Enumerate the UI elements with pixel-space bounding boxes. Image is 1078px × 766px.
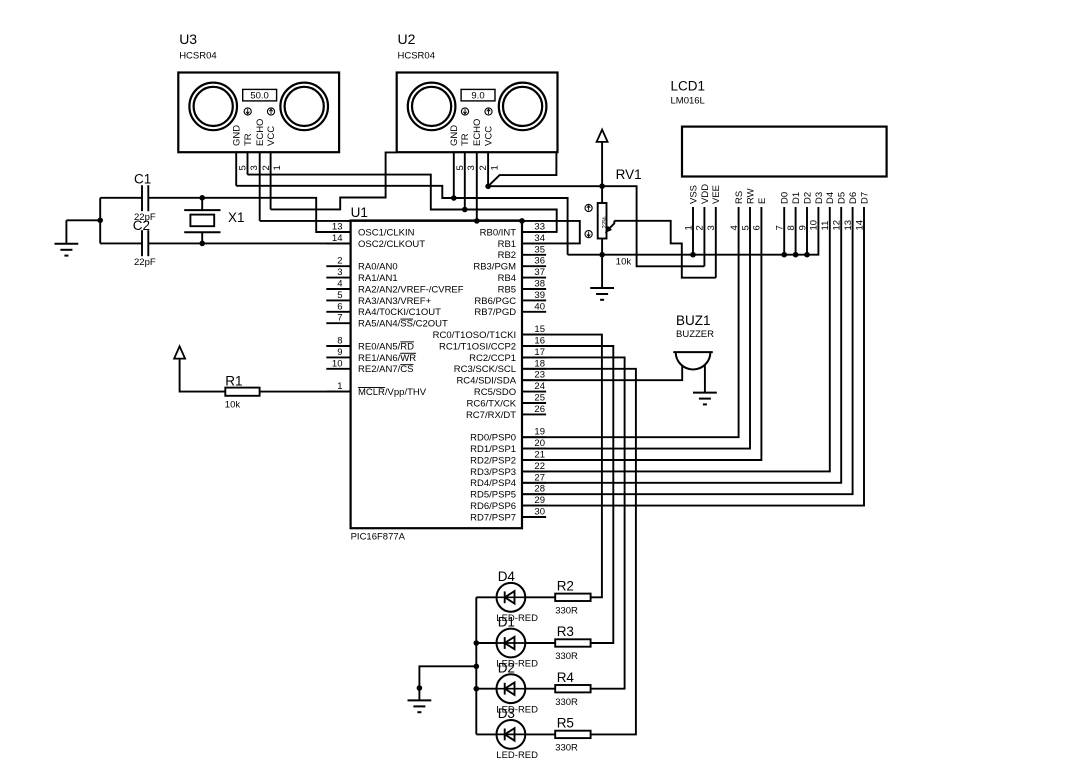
svg-text:5: 5 xyxy=(337,290,342,301)
svg-text:R5: R5 xyxy=(557,716,574,731)
wire buzzer to ground xyxy=(704,365,706,393)
U1 pin 20 stub xyxy=(522,448,546,450)
svg-text:16: 16 xyxy=(534,336,545,347)
op-amp U1 body xyxy=(351,221,522,529)
svg-text:1: 1 xyxy=(490,165,501,170)
svg-text:3: 3 xyxy=(249,165,260,170)
svg-text:6: 6 xyxy=(337,301,342,312)
svg-text:330R: 330R xyxy=(555,697,578,708)
resistor R3 xyxy=(555,639,590,646)
svg-text:RC2/CCP1: RC2/CCP1 xyxy=(469,353,516,364)
U1 pin 3 stub xyxy=(326,277,350,279)
junction cap bus xyxy=(97,218,103,224)
sensor U2 body xyxy=(397,73,558,153)
svg-text:2: 2 xyxy=(337,256,342,267)
capacitor C1 xyxy=(141,185,143,211)
wire LCD VDD xyxy=(703,207,705,266)
wire diode D4 to bus xyxy=(476,596,496,598)
svg-text:D5: D5 xyxy=(837,192,848,204)
svg-text:3: 3 xyxy=(466,165,477,170)
wire LED cathode bus xyxy=(475,597,477,734)
U1 pin 5 stub xyxy=(326,299,350,301)
U1 pin 40 stub xyxy=(522,311,546,313)
svg-text:24: 24 xyxy=(534,381,545,392)
U1 pin 30 stub xyxy=(522,516,546,518)
junction bus D2 xyxy=(474,686,480,692)
U1 pin 18 stub xyxy=(522,368,546,370)
junction bus D0 xyxy=(781,252,787,258)
svg-text:HCSR04: HCSR04 xyxy=(398,51,436,62)
svg-text:21: 21 xyxy=(534,450,545,461)
U1 pin 23 stub xyxy=(522,379,546,381)
wire RC0 to R2 xyxy=(522,335,602,598)
U1 pin 1 stub xyxy=(326,391,350,393)
svg-text:10k: 10k xyxy=(616,257,632,268)
svg-text:4: 4 xyxy=(337,279,342,290)
svg-text:22%: 22% xyxy=(602,216,608,229)
U1 pin 9 stub xyxy=(326,356,350,358)
wire +5V to U2.VCC xyxy=(488,185,602,187)
svg-text:VEE: VEE xyxy=(711,185,722,204)
RV1 up arrow xyxy=(585,204,592,211)
wire ECHO net (U3.ECHO - U2.ECHO - RB1) xyxy=(260,221,580,244)
junction RV1 bottom xyxy=(599,252,605,258)
svg-text:7: 7 xyxy=(337,313,342,324)
U1 pin 25 stub xyxy=(522,402,546,404)
svg-text:13: 13 xyxy=(332,222,343,233)
wire R3 to diode D1 xyxy=(525,642,555,644)
svg-text:35: 35 xyxy=(534,244,545,255)
sensor U3 rx arrow xyxy=(267,108,274,115)
wire diode D3 to bus xyxy=(476,733,496,735)
wire bus to ground xyxy=(66,219,100,221)
svg-text:VCC: VCC xyxy=(484,126,495,146)
wire RV1 bottom stem xyxy=(601,239,603,255)
svg-text:50.0: 50.0 xyxy=(250,91,269,102)
U1 pin 10 stub xyxy=(326,368,350,370)
svg-text:RB4: RB4 xyxy=(498,273,516,284)
wire diode D2 to bus xyxy=(476,688,496,690)
diode D1 xyxy=(497,629,526,658)
svg-text:RC6/TX/CK: RC6/TX/CK xyxy=(466,398,516,409)
svg-text:RC4/SDI/SDA: RC4/SDI/SDA xyxy=(456,376,516,387)
resistor R5 xyxy=(555,731,590,738)
svg-text:D2: D2 xyxy=(802,192,813,204)
junction +5V at RV1 top xyxy=(599,183,605,189)
ground (RV1) xyxy=(590,287,614,289)
svg-text:OSC1/CLKIN: OSC1/CLKIN xyxy=(358,227,415,238)
wire C1 to OSC1 xyxy=(148,198,350,232)
svg-text:ECHO: ECHO xyxy=(255,119,266,146)
wire +5V stem xyxy=(601,142,603,186)
svg-text:C2: C2 xyxy=(133,218,150,233)
svg-text:RC3/SCK/SCL: RC3/SCK/SCL xyxy=(454,364,516,375)
svg-text:U3: U3 xyxy=(179,31,197,47)
power arrow (R1) xyxy=(174,346,185,358)
wire U3 pin TR xyxy=(247,152,249,174)
wire ground bus (VSS D0-D3) xyxy=(568,207,819,255)
wire TRIG net (U3.TR - U2.TR - RB0/INT) xyxy=(248,175,557,232)
svg-text:TR: TR xyxy=(243,133,254,146)
sensor U3 left transducer xyxy=(189,83,237,131)
svg-text:33: 33 xyxy=(534,222,545,233)
svg-text:37: 37 xyxy=(534,267,545,278)
wire U3 pin GND xyxy=(235,152,237,186)
wire U3.VCC to U2 supply xyxy=(271,152,397,209)
svg-text:25: 25 xyxy=(534,393,545,404)
svg-text:10k: 10k xyxy=(225,400,241,411)
wire LCD VSS to ground bus xyxy=(692,207,694,255)
svg-text:C1: C1 xyxy=(134,172,151,187)
U1 pin 15 stub xyxy=(522,334,546,336)
U1 pin 33 stub xyxy=(522,231,546,233)
svg-text:D3: D3 xyxy=(498,706,515,721)
svg-text:39: 39 xyxy=(534,290,545,301)
U1 pin 4 stub xyxy=(326,288,350,290)
junction bus ground tap xyxy=(474,664,480,670)
svg-text:RB0/INT: RB0/INT xyxy=(480,227,517,238)
svg-text:RD6/PSP6: RD6/PSP6 xyxy=(470,501,516,512)
potentiometer RV1 body xyxy=(598,203,607,239)
svg-text:10: 10 xyxy=(809,220,820,231)
svg-text:VDD: VDD xyxy=(700,184,711,204)
diode D3 xyxy=(497,720,526,749)
svg-text:RD4/PSP4: RD4/PSP4 xyxy=(470,478,516,489)
U1 pin 37 stub xyxy=(522,277,546,279)
junction TRIG at U2.TR xyxy=(462,207,468,213)
svg-text:28: 28 xyxy=(534,484,545,495)
wire U2.VCC branch to box xyxy=(488,152,556,186)
svg-text:RB1: RB1 xyxy=(498,239,516,250)
svg-text:D3: D3 xyxy=(814,192,825,204)
svg-text:RV1: RV1 xyxy=(616,167,642,182)
svg-text:RB7/PGD: RB7/PGD xyxy=(474,307,516,318)
sensor U2 rx arrow xyxy=(485,108,492,115)
svg-text:RD5/PSP5: RD5/PSP5 xyxy=(470,490,516,501)
U1 pin 27 stub xyxy=(522,482,546,484)
U1 pin 38 stub xyxy=(522,288,546,290)
svg-text:RE0/AN5/RD: RE0/AN5/RD xyxy=(358,341,414,352)
svg-text:18: 18 xyxy=(534,358,545,369)
wire U3 pin VCC xyxy=(270,152,272,209)
svg-text:RE1/AN6/WR: RE1/AN6/WR xyxy=(358,353,416,364)
svg-text:GND: GND xyxy=(449,125,460,146)
U1 pin 8 stub xyxy=(326,345,350,347)
wire power to R1 xyxy=(180,359,226,392)
svg-text:D2: D2 xyxy=(498,660,515,675)
svg-text:330R: 330R xyxy=(555,606,578,617)
wire LCD E to RD2 xyxy=(522,207,761,460)
wire R5 to diode D3 xyxy=(525,733,555,735)
sensor U3 value display 50.0 xyxy=(243,89,277,101)
svg-text:OSC2/CLKOUT: OSC2/CLKOUT xyxy=(358,239,425,250)
svg-text:LM016L: LM016L xyxy=(671,96,705,107)
power +5V arrow xyxy=(597,130,608,142)
junction ECHO at U1 corner xyxy=(519,218,525,224)
svg-text:RA3/AN3/VREF+: RA3/AN3/VREF+ xyxy=(358,296,432,307)
svg-text:U1: U1 xyxy=(351,205,368,220)
resistor R2 xyxy=(555,594,590,601)
svg-text:RW: RW xyxy=(745,188,756,204)
junction GND at U2.GND xyxy=(451,195,457,201)
svg-text:17: 17 xyxy=(534,347,545,358)
wire LCD RW to RD1 xyxy=(522,207,750,449)
svg-text:D1: D1 xyxy=(791,192,802,204)
wire U3 pin ECHO xyxy=(259,152,261,221)
wire RC2 to R4 xyxy=(522,357,625,688)
svg-text:D1: D1 xyxy=(498,615,515,630)
diode D2 xyxy=(497,674,526,703)
svg-text:RC7/RX/DT: RC7/RX/DT xyxy=(466,410,516,421)
U1 pin 17 stub xyxy=(522,356,546,358)
sensor U3 tx arrow xyxy=(244,108,251,115)
wire bus to LED ground xyxy=(419,666,476,700)
svg-text:14: 14 xyxy=(332,233,343,244)
svg-text:D4: D4 xyxy=(498,569,516,584)
svg-text:PIC16F877A: PIC16F877A xyxy=(351,532,406,543)
svg-text:RA5/AN4/SS/C2OUT: RA5/AN4/SS/C2OUT xyxy=(358,319,448,330)
U1 pin 28 stub xyxy=(522,493,546,495)
U1 pin 29 stub xyxy=(522,505,546,507)
svg-text:330R: 330R xyxy=(555,651,578,662)
svg-text:8: 8 xyxy=(337,336,342,347)
U1 pin 13 stub xyxy=(326,231,350,233)
ground (oscillator) xyxy=(55,243,79,245)
svg-text:23: 23 xyxy=(534,370,545,381)
ground (buzzer) xyxy=(693,392,717,394)
svg-text:RA0/AN0: RA0/AN0 xyxy=(358,262,398,273)
svg-text:BUZ1: BUZ1 xyxy=(676,313,711,328)
svg-text:1: 1 xyxy=(272,165,283,170)
wire U2 pin ECHO xyxy=(476,152,478,221)
svg-text:1: 1 xyxy=(337,381,342,392)
svg-text:RS: RS xyxy=(734,191,745,204)
resistor R1 xyxy=(225,388,259,396)
junction +5V at U2.VCC xyxy=(485,184,491,190)
junction bus D1 xyxy=(474,640,480,646)
svg-text:GND: GND xyxy=(232,125,243,146)
svg-text:RD7/PSP7: RD7/PSP7 xyxy=(470,512,516,523)
svg-text:22: 22 xyxy=(534,461,545,472)
svg-text:HCSR04: HCSR04 xyxy=(179,51,217,62)
svg-text:E: E xyxy=(757,198,768,204)
svg-text:27: 27 xyxy=(534,472,545,483)
crystal X1 xyxy=(201,198,203,210)
svg-text:VSS: VSS xyxy=(688,185,699,204)
wire cap bus xyxy=(99,198,101,244)
svg-text:RB3/PGM: RB3/PGM xyxy=(473,262,516,273)
svg-text:20: 20 xyxy=(534,438,545,449)
svg-text:RE2/AN7/CS: RE2/AN7/CS xyxy=(358,364,413,375)
U1 pin 21 stub xyxy=(522,459,546,461)
svg-text:RC5/SDO: RC5/SDO xyxy=(474,387,516,398)
svg-text:9.0: 9.0 xyxy=(471,91,484,102)
svg-text:RA2/AN2/VREF-/CVREF: RA2/AN2/VREF-/CVREF xyxy=(358,284,464,295)
U1 pin 39 stub xyxy=(522,299,546,301)
svg-text:ECHO: ECHO xyxy=(472,119,483,146)
sensor U2 tx arrow xyxy=(461,108,468,115)
wire RC1 to R3 xyxy=(522,346,613,643)
capacitor C2 xyxy=(141,230,143,256)
U1 pin 22 stub xyxy=(522,470,546,472)
wire U2 pin VCC xyxy=(487,152,489,186)
svg-text:22pF: 22pF xyxy=(134,257,156,268)
wire LCD RS to RD0 xyxy=(522,207,739,437)
wire RC3 to R5 xyxy=(522,369,636,735)
svg-text:10: 10 xyxy=(332,358,343,369)
svg-text:TR: TR xyxy=(460,133,471,146)
junction bus VSS xyxy=(690,252,696,258)
svg-text:330R: 330R xyxy=(555,743,578,754)
svg-text:26: 26 xyxy=(534,404,545,415)
U1 pin 2 stub xyxy=(326,265,350,267)
wire LCD D6 to RD5 xyxy=(522,207,853,494)
svg-text:19: 19 xyxy=(534,427,545,438)
svg-text:RD3/PSP3: RD3/PSP3 xyxy=(470,467,516,478)
U1 pin 36 stub xyxy=(522,265,546,267)
svg-text:LCD1: LCD1 xyxy=(671,79,706,94)
wire LCD VEE xyxy=(715,207,717,278)
wire RV1 to ground xyxy=(601,255,603,288)
svg-text:R2: R2 xyxy=(557,579,574,594)
wire LCD D0 to bus xyxy=(783,207,785,255)
diode D4 xyxy=(497,583,526,612)
wire LCD D4 to RD3 xyxy=(522,207,830,471)
U1 pin 26 stub xyxy=(522,413,546,415)
svg-text:VCC: VCC xyxy=(266,126,277,146)
wire RV1 wiper to LCD VEE xyxy=(614,221,716,278)
svg-text:D4: D4 xyxy=(825,192,836,204)
U1 pin 35 stub xyxy=(522,254,546,256)
svg-text:BUZZER: BUZZER xyxy=(676,329,714,340)
svg-text:RA1/AN1: RA1/AN1 xyxy=(358,273,398,284)
svg-text:38: 38 xyxy=(534,279,545,290)
junction crystal bottom xyxy=(199,241,205,247)
svg-text:40: 40 xyxy=(534,301,545,312)
wire C2 left xyxy=(100,242,142,244)
resistor R4 xyxy=(555,685,590,692)
junction crystal top xyxy=(199,195,205,201)
U1 pin 7 stub xyxy=(326,322,350,324)
wire +5V to LCD VDD xyxy=(602,186,704,266)
U1 pin 19 stub xyxy=(522,436,546,438)
sensor U2 value display 9.0 xyxy=(461,89,495,101)
sensor U2 left transducer xyxy=(408,83,456,131)
junction LED ground xyxy=(417,685,423,691)
svg-text:LED-RED: LED-RED xyxy=(496,750,538,761)
svg-text:RC0/T1OSO/T1CKI: RC0/T1OSO/T1CKI xyxy=(433,330,516,341)
svg-text:34: 34 xyxy=(534,233,545,244)
svg-text:MCLR/Vpp/THV: MCLR/Vpp/THV xyxy=(358,387,427,398)
wire R4 to diode D2 xyxy=(525,688,555,690)
svg-text:15: 15 xyxy=(534,324,545,335)
svg-text:RD0/PSP0: RD0/PSP0 xyxy=(470,433,516,444)
svg-text:30: 30 xyxy=(534,507,545,518)
svg-text:RB6/PGC: RB6/PGC xyxy=(474,296,516,307)
U1 pin 34 stub xyxy=(522,242,546,244)
junction bus D1 xyxy=(793,252,799,258)
U1 pin 14 stub xyxy=(326,242,350,244)
svg-text:D6: D6 xyxy=(848,192,859,204)
U1 pin 6 stub xyxy=(326,311,350,313)
wire C2 to OSC2 xyxy=(148,242,350,244)
wire LCD D7 to RD6 xyxy=(522,207,864,506)
svg-text:RB2: RB2 xyxy=(498,250,516,261)
junction ECHO at U2.ECHO xyxy=(474,218,480,224)
svg-text:3: 3 xyxy=(337,267,342,278)
svg-text:9: 9 xyxy=(337,347,342,358)
wire diode D1 to bus xyxy=(476,642,496,644)
svg-text:36: 36 xyxy=(534,256,545,267)
svg-text:RD1/PSP1: RD1/PSP1 xyxy=(470,444,516,455)
U1 pin 24 stub xyxy=(522,391,546,393)
U1 pin 16 stub xyxy=(522,345,546,347)
wire U2 pin GND xyxy=(453,152,455,198)
wire U2 pin TR xyxy=(464,152,466,209)
wire R1 to MCLR xyxy=(260,391,351,393)
sensor U2 right transducer xyxy=(499,83,547,131)
wire RC4 to buzzer xyxy=(522,365,682,380)
svg-text:RA4/T0CKI/C1OUT: RA4/T0CKI/C1OUT xyxy=(358,307,441,318)
svg-text:RC1/T1OSI/CCP2: RC1/T1OSI/CCP2 xyxy=(439,341,516,352)
svg-text:RB5: RB5 xyxy=(498,284,516,295)
wire C1 left xyxy=(100,197,142,199)
wire R2 to diode D4 xyxy=(525,596,555,598)
svg-text:U2: U2 xyxy=(398,31,416,47)
RV1 wiper arrow xyxy=(607,221,614,231)
svg-text:RD2/PSP2: RD2/PSP2 xyxy=(470,455,516,466)
sensor U3 body xyxy=(178,73,339,153)
wire LCD D5 to RD4 xyxy=(522,207,841,483)
svg-text:D7: D7 xyxy=(859,192,870,204)
svg-text:D0: D0 xyxy=(780,192,791,204)
RV1 down arrow xyxy=(585,231,592,238)
svg-text:R4: R4 xyxy=(557,670,575,685)
junction bus D2 xyxy=(804,252,810,258)
wire RV1 top stem xyxy=(601,186,603,203)
svg-text:R3: R3 xyxy=(557,624,574,639)
svg-text:X1: X1 xyxy=(228,210,245,225)
svg-text:R1: R1 xyxy=(225,374,242,389)
wire LCD D1 to bus xyxy=(795,207,797,255)
svg-text:29: 29 xyxy=(534,495,545,506)
LCD1 body xyxy=(682,127,887,177)
wire sensor GND net (U3.GND - U2.GND - ground bus) xyxy=(236,186,567,255)
buzzer BUZ1 body xyxy=(676,352,711,369)
ground (LEDs) xyxy=(408,699,432,701)
sensor U3 right transducer xyxy=(280,83,328,131)
wire LCD D2 to bus xyxy=(806,207,808,255)
